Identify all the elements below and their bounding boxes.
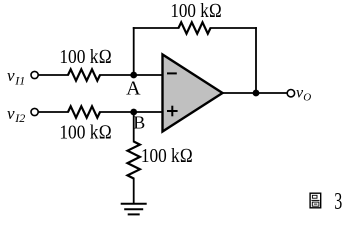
svg-text:v: v xyxy=(7,66,15,85)
svg-text:O: O xyxy=(303,91,311,103)
svg-text:I2: I2 xyxy=(14,111,25,125)
svg-text:I1: I1 xyxy=(14,74,25,88)
svg-text:3: 3 xyxy=(334,188,342,215)
svg-text:100 kΩ: 100 kΩ xyxy=(59,46,112,68)
svg-text:B: B xyxy=(133,113,145,133)
svg-text:v: v xyxy=(7,104,15,123)
svg-text:100 kΩ: 100 kΩ xyxy=(170,0,222,22)
svg-text:100 kΩ: 100 kΩ xyxy=(59,122,112,144)
svg-text:A: A xyxy=(126,78,141,100)
svg-text:100 kΩ: 100 kΩ xyxy=(141,145,193,167)
